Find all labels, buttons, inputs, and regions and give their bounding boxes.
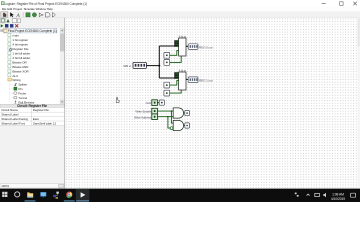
svg-text:Simulate: Simulate <box>24 7 35 11</box>
svg-text:Splitter: Splitter <box>18 83 27 87</box>
svg-text:4 bit register: 4 bit register <box>12 43 28 47</box>
svg-text:Wiring: Wiring <box>12 78 21 82</box>
svg-text:1:08 AM: 1:08 AM <box>332 192 344 196</box>
svg-text:WR d: WR d <box>123 64 131 68</box>
svg-text:Edit: Edit <box>7 7 12 11</box>
svg-text:Circuit Name: Circuit Name <box>1 108 18 112</box>
svg-text:1 bit register: 1 bit register <box>12 38 28 42</box>
svg-text:1 bit full adder: 1 bit full adder <box>12 52 30 56</box>
svg-text:Pin: Pin <box>18 87 23 91</box>
svg-text:REG 1 out: REG 1 out <box>199 79 213 83</box>
svg-text:Shared Label Font: Shared Label Font <box>1 121 25 125</box>
svg-text:Logisim: Register File of Fina: Logisim: Register File of Final Project … <box>5 2 87 6</box>
svg-text:Write Enable: Write Enable <box>135 110 151 114</box>
svg-text:Tunnel: Tunnel <box>18 96 27 100</box>
svg-text:Bitwise XOR: Bitwise XOR <box>12 69 29 73</box>
svg-text:Final Project ECEN360 Complete: Final Project ECEN360 Complete (1) <box>8 29 57 33</box>
svg-text:Probe: Probe <box>18 92 26 96</box>
svg-text:main: main <box>12 34 19 38</box>
svg-text:4 bit re: 4 bit re <box>179 68 187 72</box>
svg-text:Shared Label: Shared Label <box>1 113 19 117</box>
svg-text:ALU: ALU <box>12 74 18 78</box>
svg-text:East: East <box>33 117 39 121</box>
svg-text:4/10/2019: 4/10/2019 <box>331 197 345 201</box>
svg-text:Project: Project <box>13 7 22 11</box>
svg-text:100%: 100% <box>1 184 9 188</box>
svg-text:Bitwise OR: Bitwise OR <box>12 60 27 64</box>
svg-text:REG 0 out: REG 0 out <box>199 45 213 49</box>
svg-text:SansSerif plain 12: SansSerif plain 12 <box>33 121 57 125</box>
svg-text:File: File <box>2 7 7 11</box>
svg-text:4 bit full adder: 4 bit full adder <box>12 56 30 60</box>
svg-text:Write Address: Write Address <box>134 115 152 119</box>
svg-text:Help: Help <box>47 7 53 11</box>
svg-text:Window: Window <box>36 7 47 11</box>
svg-text:4 bit re: 4 bit re <box>179 34 187 38</box>
svg-text:CLK: CLK <box>146 101 152 105</box>
svg-text:Register File: Register File <box>33 108 49 112</box>
svg-text:Bitwise AND: Bitwise AND <box>12 65 29 69</box>
svg-text:Register File: Register File <box>12 47 28 51</box>
svg-text:Shared Label Facing: Shared Label Facing <box>1 117 28 121</box>
